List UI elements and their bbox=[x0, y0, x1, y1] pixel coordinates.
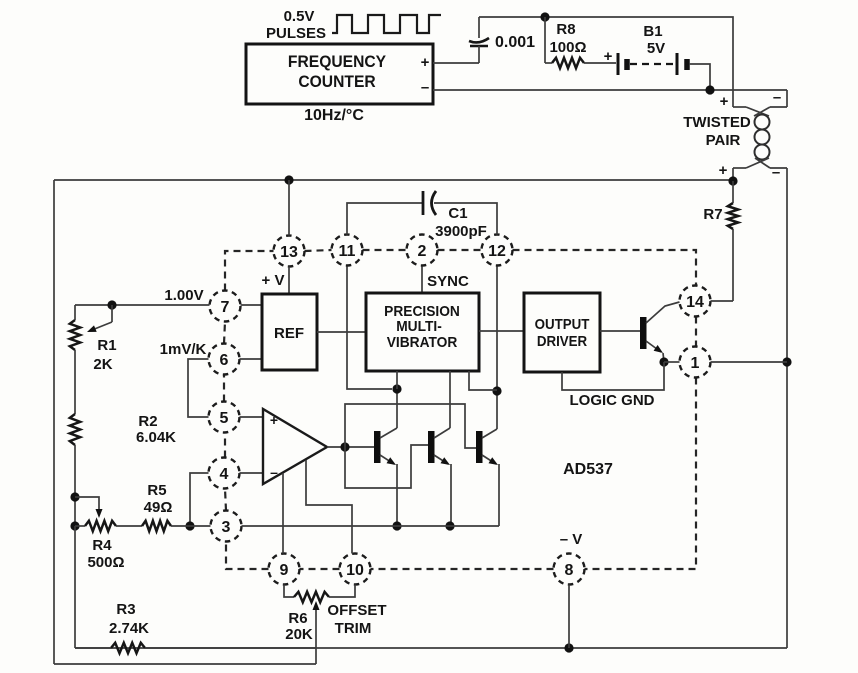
resistor R5 49 ohm bbox=[142, 521, 211, 531]
frequency counter - terminal bbox=[421, 79, 429, 96]
svg-text:B1: B1 bbox=[643, 23, 662, 40]
svg-text:5: 5 bbox=[220, 410, 229, 427]
wire C1 to pin12 bbox=[434, 203, 497, 235]
node junction R5/pin4 bbox=[0, 0, 1, 1]
svg-text:PULSES: PULSES bbox=[266, 25, 326, 42]
label B1 5V bbox=[643, 23, 665, 57]
label 20K bbox=[285, 626, 313, 643]
label C1 bbox=[448, 205, 467, 222]
pin 1 bbox=[680, 347, 711, 378]
wire output driver to Q output transistor bbox=[600, 330, 640, 332]
op-amp U1 bbox=[263, 409, 327, 484]
svg-text:MULTI-: MULTI- bbox=[396, 318, 442, 334]
wire pin13 to REF box bbox=[288, 267, 290, 295]
resistor R4 500 ohm potentiometer bbox=[75, 521, 142, 531]
IC outline dashed top left bbox=[225, 251, 274, 291]
svg-text:PRECISION: PRECISION bbox=[384, 303, 460, 319]
label TRIM bbox=[335, 620, 372, 637]
capacitor C1 3900pF bbox=[423, 191, 436, 215]
svg-text:R5: R5 bbox=[147, 482, 166, 499]
label R8 bbox=[556, 21, 575, 38]
svg-text:10Hz/°C: 10Hz/°C bbox=[304, 107, 364, 124]
wire +V top rail bbox=[54, 179, 733, 181]
node junction R4 left bbox=[70, 521, 79, 530]
pin 13 bbox=[274, 236, 305, 267]
IC outline dashed 2-12 bbox=[438, 249, 482, 251]
frequency counter + terminal bbox=[421, 54, 430, 71]
svg-text:DRIVER: DRIVER bbox=[537, 332, 587, 349]
wire outer right vertical bbox=[786, 168, 788, 648]
svg-text:9: 9 bbox=[280, 562, 289, 579]
svg-text:2: 2 bbox=[418, 243, 427, 260]
output driver box bbox=[524, 293, 600, 372]
svg-text:R7: R7 bbox=[703, 206, 722, 223]
wire pin11 to Q2 collector node bbox=[347, 267, 392, 390]
resistor R3 2.74K bbox=[75, 526, 316, 653]
label 10Hz/degC bbox=[304, 107, 364, 124]
twisted pair transformer symbol bbox=[733, 90, 787, 181]
IC outline dashed 1 to pin8 bbox=[585, 378, 697, 570]
svg-text:13: 13 bbox=[280, 244, 298, 261]
svg-text:+: + bbox=[421, 54, 430, 71]
node junction top rail bbox=[540, 12, 549, 21]
svg-text:LOGIC GND: LOGIC GND bbox=[570, 392, 655, 409]
svg-text:2K: 2K bbox=[93, 356, 112, 373]
label R6 bbox=[288, 610, 307, 627]
IC outline dashed 10-9 bbox=[300, 568, 340, 570]
svg-text:6: 6 bbox=[220, 352, 229, 369]
square wave pulse waveform bbox=[332, 15, 441, 33]
wire op-amp output bbox=[327, 446, 374, 448]
svg-text:12: 12 bbox=[488, 243, 506, 260]
label -V bbox=[560, 531, 583, 548]
svg-text:C1: C1 bbox=[448, 205, 467, 222]
node junction Q4 collector bbox=[492, 386, 501, 395]
node junction Q2 collector bbox=[392, 384, 401, 393]
transistor Q2 bbox=[374, 389, 397, 526]
pin 3 bbox=[211, 511, 242, 542]
node junction R7 top bbox=[728, 176, 737, 185]
svg-text:11: 11 bbox=[339, 243, 356, 260]
pin 10 bbox=[340, 554, 371, 585]
svg-text:1: 1 bbox=[691, 355, 700, 372]
battery + label bbox=[604, 48, 613, 65]
label 0.001 bbox=[495, 34, 535, 51]
svg-text:R2: R2 bbox=[138, 413, 157, 430]
IC outline dashed 3-4 bbox=[225, 489, 226, 511]
wire pin14 to R7 bbox=[711, 300, 734, 302]
svg-text:0.001: 0.001 bbox=[495, 34, 535, 51]
IC outline dashed 12 to pin14 bbox=[513, 250, 697, 286]
wire op-amp to Q3 base bbox=[345, 445, 428, 488]
pin 2 bbox=[407, 235, 438, 266]
label LOGIC GND bbox=[570, 392, 655, 409]
svg-text:TRIM: TRIM bbox=[335, 620, 372, 637]
svg-text:+: + bbox=[719, 162, 728, 179]
svg-text:8: 8 bbox=[565, 562, 574, 579]
wire vibrator to output driver bbox=[479, 330, 524, 332]
label AD537 bbox=[563, 461, 613, 478]
pin 9 bbox=[269, 554, 300, 585]
wire Q1 emitter to pin1 bbox=[664, 361, 680, 363]
R6 wiper arrow bbox=[313, 601, 320, 664]
label R5 bbox=[147, 482, 166, 499]
node junction R4 wiper tap bbox=[70, 492, 79, 501]
svg-text:R6: R6 bbox=[288, 610, 307, 627]
op-amp REF box bbox=[262, 294, 317, 370]
node junction pin4/R5 bbox=[185, 521, 194, 530]
svg-text:R3: R3 bbox=[116, 601, 135, 618]
svg-text:AD537: AD537 bbox=[563, 461, 613, 478]
label 2.74K bbox=[109, 620, 149, 637]
svg-text:10: 10 bbox=[346, 562, 364, 579]
label 6.04K bbox=[136, 429, 176, 446]
R1 wiper arrow bbox=[87, 305, 112, 332]
svg-text:500Ω: 500Ω bbox=[87, 554, 124, 571]
resistor R2 6.04K bbox=[70, 414, 80, 526]
wire frequency counter - to twisted pair bbox=[433, 89, 787, 91]
svg-text:+: + bbox=[604, 48, 613, 65]
wire pin1 to right rail bbox=[711, 361, 788, 363]
label OFFSET bbox=[327, 602, 386, 619]
svg-text:–: – bbox=[270, 464, 278, 480]
IC outline dashed 8-10 bbox=[371, 568, 554, 570]
svg-text:+: + bbox=[270, 412, 278, 428]
svg-text:OFFSET: OFFSET bbox=[327, 602, 386, 619]
svg-text:+ V: + V bbox=[262, 272, 285, 289]
svg-text:6.04K: 6.04K bbox=[136, 429, 176, 446]
label 500ohm bbox=[87, 554, 124, 571]
label 0.5V PULSES bbox=[266, 8, 326, 42]
svg-text:+: + bbox=[720, 93, 729, 110]
wire top rail to twisted pair + bbox=[479, 17, 733, 107]
wire outer bottom rail bbox=[75, 647, 787, 649]
pin 12 bbox=[482, 235, 513, 266]
node junction op-amp output bbox=[340, 442, 349, 451]
svg-text:OUTPUT: OUTPUT bbox=[535, 315, 590, 332]
wire vibrator to Q2 collector bbox=[396, 371, 398, 389]
wire pin6 to pin5 loop bbox=[188, 359, 209, 417]
IC outline dashed 5-6 bbox=[223, 375, 225, 402]
label 2K bbox=[93, 356, 112, 373]
wire LOGIC GND bbox=[562, 362, 664, 390]
twisted pair upper - label bbox=[773, 89, 781, 106]
wire frequency counter + output bbox=[433, 62, 479, 64]
wire REF to vibrator bbox=[317, 331, 366, 333]
twisted pair lower - label bbox=[772, 164, 780, 181]
svg-text:–: – bbox=[421, 79, 429, 96]
node junction pin8 bottom bbox=[564, 643, 573, 652]
wire pin2 to vibrator SYNC bbox=[421, 267, 423, 294]
pin 14 bbox=[680, 286, 711, 317]
wire op-amp to pin9 bbox=[282, 473, 284, 554]
svg-text:1.00V: 1.00V bbox=[164, 287, 203, 304]
svg-text:0.5V: 0.5V bbox=[284, 8, 315, 25]
wire vibrator to Q4 collector node bbox=[469, 371, 497, 390]
svg-text:TWISTED: TWISTED bbox=[683, 114, 751, 131]
wire pin8 to bottom rail bbox=[568, 585, 570, 649]
wire pin10 to R6 bbox=[329, 585, 355, 598]
svg-text:R1: R1 bbox=[97, 337, 116, 354]
resistor R8 bbox=[545, 58, 616, 68]
pin 8 bbox=[554, 554, 585, 585]
IC outline dashed 9 to pin3 bbox=[226, 542, 269, 570]
label FREQUENCY bbox=[288, 52, 386, 71]
wire pin12 to transistor Q4 collector node bbox=[496, 267, 498, 392]
wire pin4 to op-amp - bbox=[240, 472, 264, 474]
node junction battery/counter bbox=[705, 85, 714, 94]
svg-text:–: – bbox=[773, 89, 781, 106]
resistor R1 2K potentiometer bbox=[70, 305, 80, 414]
wire outer left vertical bbox=[53, 180, 55, 664]
label R7 bbox=[703, 206, 722, 223]
svg-text:R8: R8 bbox=[556, 21, 575, 38]
node junction Q1 emitter bbox=[659, 357, 668, 366]
label 100ohm bbox=[549, 39, 586, 56]
wire op-amp to pin10 bbox=[306, 460, 352, 554]
wire outer bottom left rail bbox=[54, 663, 316, 665]
svg-text:– V: – V bbox=[560, 531, 583, 548]
label 3900pF bbox=[435, 223, 487, 240]
IC outline dashed 11-2 bbox=[363, 249, 407, 251]
wire pin9 to R6 bbox=[284, 585, 294, 598]
transistor Q1 output bbox=[640, 302, 680, 362]
precision multivibrator box bbox=[366, 293, 479, 371]
svg-text:R4: R4 bbox=[92, 537, 112, 554]
frequency counter box bbox=[246, 44, 433, 104]
svg-text:SYNC: SYNC bbox=[427, 273, 469, 290]
svg-text:FREQUENCY: FREQUENCY bbox=[288, 52, 386, 71]
label 1mV/K bbox=[160, 341, 207, 358]
IC outline dashed 4-5 bbox=[224, 433, 226, 458]
pin 6 bbox=[209, 344, 240, 375]
label TWISTED PAIR bbox=[683, 114, 751, 149]
twisted pair upper + label bbox=[720, 93, 729, 110]
label R3 bbox=[116, 601, 135, 618]
pin 11 bbox=[332, 235, 363, 266]
resistor R6 20K potentiometer bbox=[294, 592, 329, 602]
wire pin5 to op-amp + bbox=[240, 416, 264, 418]
svg-text:5V: 5V bbox=[647, 40, 665, 57]
label SYNC bbox=[427, 273, 469, 290]
svg-text:COUNTER: COUNTER bbox=[298, 72, 376, 91]
wire emitter rail to pin3 bbox=[242, 525, 500, 527]
resistor R7 bbox=[728, 181, 738, 301]
R4 wiper arrow bbox=[75, 497, 103, 518]
wire pin4 branch bbox=[190, 473, 209, 526]
wire pin6 to REF bbox=[240, 358, 263, 360]
svg-text:20K: 20K bbox=[285, 626, 313, 643]
wire R8 feed bbox=[544, 17, 546, 63]
svg-text:3900pF: 3900pF bbox=[435, 223, 487, 240]
wire pin7 to REF bbox=[241, 304, 263, 306]
IC outline dashed 13-11 bbox=[305, 250, 332, 251]
svg-text:1mV/K: 1mV/K bbox=[160, 341, 207, 358]
label R1 bbox=[97, 337, 116, 354]
node junction Q2 emitter bbox=[392, 521, 401, 530]
svg-text:4: 4 bbox=[220, 466, 229, 483]
svg-text:100Ω: 100Ω bbox=[549, 39, 586, 56]
svg-text:3: 3 bbox=[222, 519, 231, 536]
wire 1.00V pin7 bbox=[75, 304, 210, 306]
IC outline dashed 14-1 bbox=[695, 317, 697, 347]
IC outline dashed 6-7 bbox=[224, 322, 225, 344]
transistor Q3 bbox=[428, 371, 451, 526]
pin 7 bbox=[210, 291, 241, 322]
wire battery to twisted pair junction bbox=[689, 64, 710, 90]
label 1.00V bbox=[164, 287, 203, 304]
node junction Q3 emitter bbox=[445, 521, 454, 530]
node junction R1 wiper tap bbox=[107, 300, 116, 309]
transistor Q4 bbox=[476, 391, 499, 526]
label R2 bbox=[138, 413, 157, 430]
pin 4 bbox=[209, 458, 240, 489]
svg-text:VIBRATOR: VIBRATOR bbox=[387, 334, 458, 350]
twisted pair lower + label bbox=[719, 162, 728, 179]
svg-text:7: 7 bbox=[221, 299, 230, 316]
node junction pin13 rail bbox=[284, 175, 293, 184]
pin 5 bbox=[209, 402, 240, 433]
label 49ohm bbox=[144, 499, 173, 516]
svg-text:14: 14 bbox=[686, 294, 704, 311]
svg-text:–: – bbox=[772, 164, 780, 181]
svg-text:PAIR: PAIR bbox=[706, 132, 741, 149]
capacitor 0.001 bbox=[469, 17, 489, 63]
wire pin13 to +V rail bbox=[288, 180, 290, 236]
label +V bbox=[262, 272, 285, 289]
wire op-amp to Q4 base bbox=[345, 404, 476, 448]
wire pin11 to C1 bbox=[347, 203, 423, 235]
svg-text:2.74K: 2.74K bbox=[109, 620, 149, 637]
svg-text:49Ω: 49Ω bbox=[144, 499, 173, 516]
label R4 bbox=[92, 537, 112, 554]
node junction pin1 right bbox=[782, 357, 791, 366]
battery B1 bbox=[618, 53, 687, 75]
svg-text:REF: REF bbox=[274, 325, 304, 342]
